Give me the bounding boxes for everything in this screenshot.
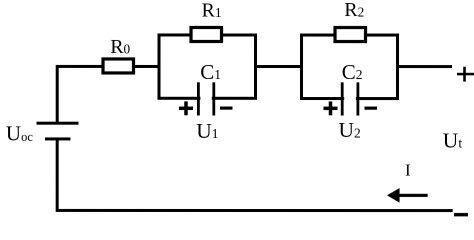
gap in bottom rail for capacitor C2 — [344, 93, 356, 104]
node: RC block 2 outline — [302, 35, 398, 99]
gap in bottom rail for capacitor C1 — [200, 93, 211, 104]
terminal plus — [457, 67, 474, 82]
capacitor C2 — [342, 82, 358, 115]
capacitor C1 — [198, 82, 213, 115]
wire: block 1 to block 2 — [256, 65, 302, 68]
resistor R0 — [103, 59, 134, 73]
wire: battery positive up and across to R0 — [57, 66, 103, 123]
svg-text:I: I — [405, 161, 411, 180]
wire: battery negative down, bottom return wire — [57, 140, 453, 210]
wire: block 2 to positive terminal — [398, 65, 453, 68]
polarity plus of C2 — [323, 101, 337, 115]
polarity minus of C1 — [220, 106, 233, 109]
resistor R2 — [335, 28, 366, 42]
current arrow — [387, 188, 428, 203]
node: RC block 1 outline — [159, 35, 256, 98]
terminal minus — [454, 213, 468, 216]
resistor R1 — [191, 27, 222, 41]
polarity minus of C2 — [365, 107, 378, 110]
battery Uoc bottom plate — [45, 137, 71, 140]
battery Uoc top plate — [36, 122, 78, 125]
polarity plus of C1 — [179, 101, 193, 115]
wire: R0 to RC block 1 — [135, 65, 161, 68]
